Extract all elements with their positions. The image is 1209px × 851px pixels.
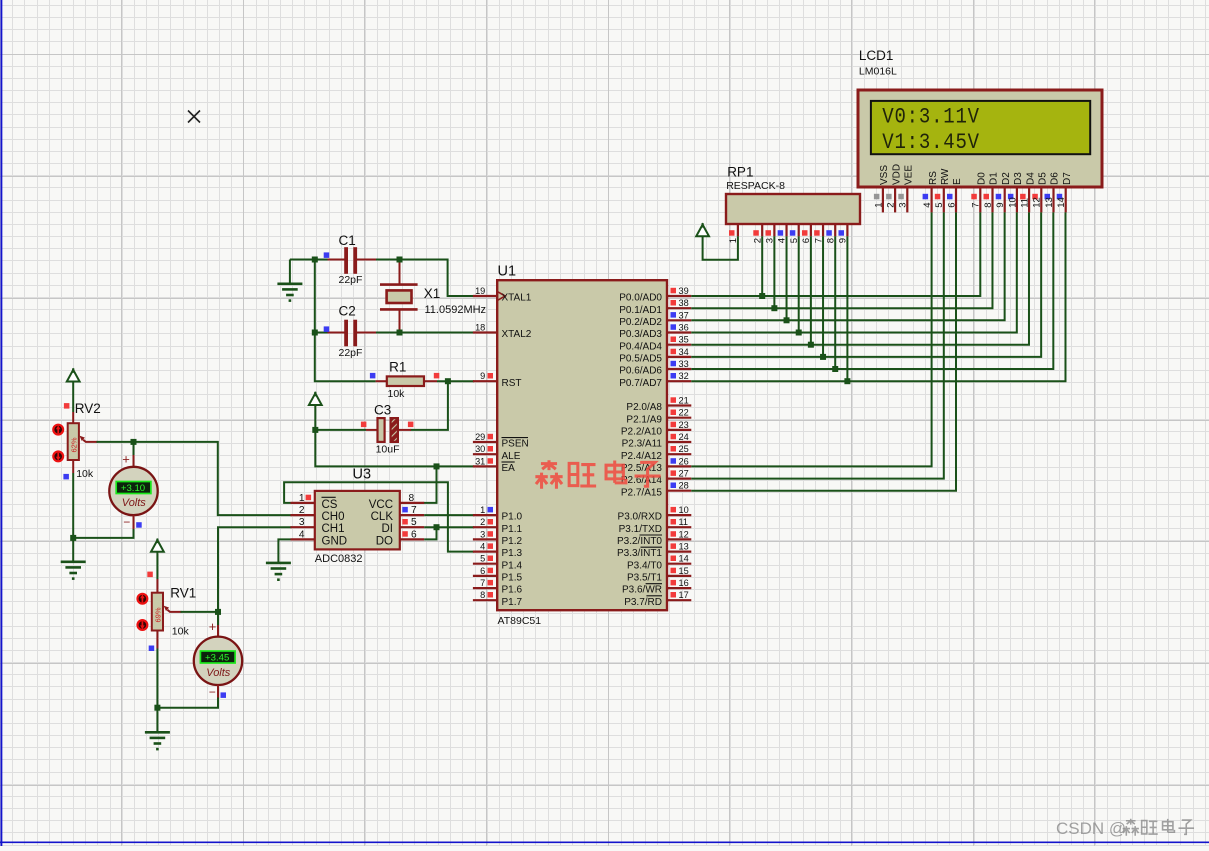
wire P0.0 net to LCD D0 xyxy=(691,212,980,296)
wire RP1 pin 3 drop xyxy=(773,236,775,308)
U1 pin 34 P0.5/AD5 xyxy=(667,356,691,358)
svg-text:37: 37 xyxy=(679,310,689,320)
wire CH1 vertical xyxy=(218,527,292,612)
svg-text:Volts: Volts xyxy=(206,667,231,679)
junction RP1-P0.7 xyxy=(844,378,850,384)
U1 pin 7 P1.6 xyxy=(473,587,497,589)
wire P0.4 net to LCD D4 xyxy=(691,212,1029,344)
svg-text:P2.3/A11: P2.3/A11 xyxy=(622,439,663,450)
U1 pin 12 P3.2/INT0 xyxy=(667,538,691,540)
svg-text:P0.3/AD3: P0.3/AD3 xyxy=(619,329,662,340)
svg-text:P0.6/AD6: P0.6/AD6 xyxy=(619,366,662,377)
svg-text:+3.45: +3.45 xyxy=(205,652,229,663)
svg-text:P2.7/A15: P2.7/A15 xyxy=(621,487,663,498)
junction R1-C3 xyxy=(445,378,451,384)
ground near C1 xyxy=(277,282,302,285)
RV2 down button xyxy=(53,452,63,462)
wire RP1 pin 5 drop xyxy=(798,236,800,332)
svg-text:P1.2: P1.2 xyxy=(502,536,523,547)
svg-text:4: 4 xyxy=(299,529,305,540)
svg-text:C2: C2 xyxy=(339,304,356,319)
RV1 wiper arrow xyxy=(167,610,181,612)
origin x marker xyxy=(188,111,200,123)
svg-text:VSS: VSS xyxy=(879,165,890,185)
RV1 up button xyxy=(138,594,148,604)
wire R1 to RST xyxy=(437,380,474,382)
RP1 pin 8 xyxy=(834,224,836,236)
svg-text:P0.2/AD2: P0.2/AD2 xyxy=(619,317,662,328)
svg-text:10uF: 10uF xyxy=(376,444,400,456)
svg-text:P3.0/RXD: P3.0/RXD xyxy=(618,512,662,523)
wire DO up to DI xyxy=(424,527,436,539)
svg-text:10: 10 xyxy=(679,505,689,515)
svg-text:P2.2/A10: P2.2/A10 xyxy=(621,427,663,438)
U1 pin 32 P0.7/AD7 xyxy=(667,380,691,382)
svg-text:3: 3 xyxy=(480,529,485,539)
svg-text:U3: U3 xyxy=(353,467,372,483)
svg-text:5: 5 xyxy=(411,517,417,528)
U1 pin 25 P2.4/A12 xyxy=(667,453,691,455)
svg-text:11.0592MHz: 11.0592MHz xyxy=(425,304,487,316)
wire P0.5 net to LCD D5 xyxy=(691,212,1041,357)
svg-text:D2: D2 xyxy=(1001,172,1012,185)
wire P0.7 net to LCD D7 xyxy=(691,212,1065,381)
ground under RV2 xyxy=(61,560,86,563)
U1 pin 31 EA xyxy=(473,465,497,467)
svg-text:6: 6 xyxy=(480,566,485,576)
svg-text:1: 1 xyxy=(299,493,305,504)
RV1 down button xyxy=(138,620,148,630)
svg-text:10k: 10k xyxy=(388,388,406,400)
U1 pin 39 P0.0/AD0 xyxy=(667,295,691,297)
wire RP1 pin 6 drop xyxy=(810,236,812,344)
svg-text:VDD: VDD xyxy=(891,164,902,185)
svg-text:2: 2 xyxy=(480,517,485,527)
svg-text:62%: 62% xyxy=(70,437,79,452)
U1 pin 4 P1.3 xyxy=(473,550,497,552)
svg-text:D4: D4 xyxy=(1025,172,1036,185)
wire DI to P1.1 xyxy=(424,526,474,528)
U3 pin 2 CH0 xyxy=(291,514,315,516)
svg-text:21: 21 xyxy=(679,396,689,406)
svg-text:14: 14 xyxy=(1056,197,1067,208)
svg-text:30: 30 xyxy=(475,444,485,454)
wire P0.3 net to LCD D3 xyxy=(691,212,1017,332)
svg-text:+: + xyxy=(122,452,130,467)
svg-text:39: 39 xyxy=(679,286,689,296)
svg-text:RV1: RV1 xyxy=(170,586,196,601)
junction EA-VCC xyxy=(434,463,440,469)
svg-text:P0.4/AD4: P0.4/AD4 xyxy=(619,341,662,352)
junction X1 top xyxy=(397,257,403,263)
svg-text:5: 5 xyxy=(934,203,945,208)
wire LCD control RS to P2.5 xyxy=(691,212,931,466)
sheet border blue xyxy=(0,0,2,846)
svg-text:6: 6 xyxy=(411,529,417,540)
U1 pin 24 P2.3/A11 xyxy=(667,441,691,443)
svg-text:C3: C3 xyxy=(374,403,391,418)
svg-text:V0:3.11V: V0:3.11V xyxy=(882,105,980,130)
U3 pin 1 CS xyxy=(291,502,315,504)
svg-text:P3.3/INT1: P3.3/INT1 xyxy=(617,548,662,559)
junction RP1-P0.1 xyxy=(771,305,777,311)
U1 pin 13 P3.3/INT1 xyxy=(667,550,691,552)
LCD1 LM016L display xyxy=(858,90,1102,187)
svg-text:EA: EA xyxy=(502,463,516,474)
U1 pin 11 P3.1/TXD xyxy=(667,526,691,528)
junction RP1-P0.4 xyxy=(808,342,814,348)
svg-text:P2.0/A8: P2.0/A8 xyxy=(626,402,662,413)
svg-text:10k: 10k xyxy=(172,626,190,638)
svg-text:24: 24 xyxy=(679,432,689,442)
svg-text:7: 7 xyxy=(480,578,485,588)
U1 pin 23 P2.2/A10 xyxy=(667,429,691,431)
svg-text:P2.4/A12: P2.4/A12 xyxy=(621,451,663,462)
svg-text:11: 11 xyxy=(679,517,689,527)
RP1 pin 9 xyxy=(846,224,848,236)
U1 pin 2 P1.1 xyxy=(473,526,497,528)
svg-text:31: 31 xyxy=(475,456,485,466)
RV2 wiper arrow xyxy=(83,440,97,442)
U1 pin 19 XTAL1 xyxy=(473,295,497,297)
svg-text:P1.6: P1.6 xyxy=(502,585,523,596)
svg-text:+: + xyxy=(209,619,217,634)
svg-text:12: 12 xyxy=(1032,197,1043,208)
svg-text:LM016L: LM016L xyxy=(859,66,897,78)
wire CLK to P1.0 xyxy=(424,514,474,516)
RP1 pin 5 xyxy=(798,224,800,236)
svg-text:X1: X1 xyxy=(424,286,441,301)
U3 pin 3 CH1 xyxy=(291,526,315,528)
svg-text:D6: D6 xyxy=(1050,172,1061,185)
power arrow for RP1 pin1 xyxy=(696,225,709,237)
U1 pin 37 P0.2/AD2 xyxy=(667,319,691,321)
svg-text:7: 7 xyxy=(411,505,417,516)
RP1 pin 3 xyxy=(773,224,775,236)
U1 pin 21 P2.0/A8 xyxy=(667,404,691,406)
svg-text:1: 1 xyxy=(480,505,485,515)
wire RP1 pin1 to power xyxy=(703,236,738,259)
U3 CS pin1 square xyxy=(306,495,312,501)
svg-text:P0.1/AD1: P0.1/AD1 xyxy=(619,305,662,316)
U1 pin 9 RST xyxy=(473,380,497,382)
wire P0.1 net to LCD D1 xyxy=(691,212,992,308)
svg-text:1: 1 xyxy=(873,203,884,208)
svg-text:−: − xyxy=(123,515,130,529)
svg-text:CLK: CLK xyxy=(371,511,394,523)
svg-text:11: 11 xyxy=(1020,198,1031,208)
svg-text:35: 35 xyxy=(679,335,689,345)
U1 pin 16 P3.6/WR xyxy=(667,587,691,589)
junction RV1 ground xyxy=(154,705,160,711)
svg-text:19: 19 xyxy=(475,286,485,296)
U1 pin 6 P1.5 xyxy=(473,575,497,577)
RP1 pin 2 xyxy=(761,224,763,236)
U1 pin 14 P3.4/T0 xyxy=(667,563,691,565)
svg-text:DI: DI xyxy=(382,523,394,535)
U1 pin 38 P0.1/AD1 xyxy=(667,307,691,309)
svg-text:U1: U1 xyxy=(498,264,517,280)
junction C3 arrow xyxy=(312,427,318,433)
svg-text:P3.4/T0: P3.4/T0 xyxy=(627,560,662,571)
svg-text:P0.7/AD7: P0.7/AD7 xyxy=(619,378,662,389)
svg-text:P1.7: P1.7 xyxy=(502,597,523,608)
svg-text:34: 34 xyxy=(679,347,689,357)
U3 pin 7 CLK xyxy=(400,514,424,516)
junction RP1-P0.3 xyxy=(796,330,802,336)
svg-text:17: 17 xyxy=(679,590,689,600)
LCD text line1 xyxy=(882,105,980,130)
wire CS to P1.3 xyxy=(284,482,474,551)
red watermark text xyxy=(535,460,562,489)
IC U3 ADC0832 xyxy=(315,491,400,550)
RV2 up button xyxy=(53,425,63,435)
svg-text:RW: RW xyxy=(940,168,951,185)
svg-text:9: 9 xyxy=(995,203,1006,208)
wire RP1 pin 7 drop xyxy=(822,236,824,357)
svg-text:P2.1/A9: P2.1/A9 xyxy=(626,414,662,425)
svg-text:29: 29 xyxy=(475,432,485,442)
wire C1 row to ground leg xyxy=(290,259,328,261)
capacitor C1 xyxy=(328,259,346,261)
svg-text:RST: RST xyxy=(502,378,522,389)
IC U1 AT89C51 xyxy=(497,280,667,610)
svg-text:ALE: ALE xyxy=(502,451,521,462)
svg-text:LCD1: LCD1 xyxy=(859,48,894,63)
svg-text:P3.6/WR: P3.6/WR xyxy=(622,585,662,596)
svg-text:5: 5 xyxy=(480,554,485,564)
svg-text:P3.1/TXD: P3.1/TXD xyxy=(619,524,662,535)
wire C2 row xyxy=(315,332,328,334)
U3 pin 8 VCC xyxy=(400,502,424,504)
capacitor C3 10uF xyxy=(366,429,379,431)
svg-text:P3.7/RD: P3.7/RD xyxy=(624,597,662,608)
RP1 pin 1 xyxy=(737,224,739,236)
svg-text:22pF: 22pF xyxy=(339,347,363,359)
svg-text:3: 3 xyxy=(898,203,909,208)
svg-text:P1.4: P1.4 xyxy=(502,560,523,571)
svg-text:9: 9 xyxy=(480,371,485,381)
potentiometer RV1 xyxy=(156,579,158,593)
svg-text:AT89C51: AT89C51 xyxy=(498,615,542,627)
svg-text:28: 28 xyxy=(679,481,689,491)
svg-text:12: 12 xyxy=(679,529,689,539)
junction RP1-P0.0 xyxy=(759,293,765,299)
svg-text:22pF: 22pF xyxy=(339,274,363,286)
svg-text:4: 4 xyxy=(922,203,933,208)
svg-text:XTAL2: XTAL2 xyxy=(502,329,532,340)
resistor pack RP1 RESPACK-8 xyxy=(726,194,860,224)
capacitor C2 xyxy=(328,332,346,334)
wire VCC U3 to EA xyxy=(424,466,437,503)
wire left vertical C1-C2-R1 xyxy=(315,260,376,382)
wire C3 row left xyxy=(315,429,366,431)
wire RP1 pin 8 drop xyxy=(834,236,836,369)
wire RV1 bottom xyxy=(156,649,158,733)
wire C1 right to XTAL1 xyxy=(356,260,474,297)
svg-text:18: 18 xyxy=(475,323,485,333)
RP1 pin 7 xyxy=(822,224,824,236)
junction wiper-VM2 xyxy=(215,609,221,615)
wire P0.6 net to LCD D6 xyxy=(691,212,1053,369)
svg-text:VCC: VCC xyxy=(369,499,393,511)
U1 pin 27 P2.6/A14 xyxy=(667,478,691,480)
svg-text:ADC0832: ADC0832 xyxy=(315,553,363,565)
ground under U3 xyxy=(266,562,291,565)
wire RV2 wiper to CH0 xyxy=(97,442,292,515)
U1 pin 26 P2.5/A13 xyxy=(667,465,691,467)
svg-text:RV2: RV2 xyxy=(75,401,101,416)
svg-text:P0.0/AD0: P0.0/AD0 xyxy=(619,293,662,304)
svg-text:DO: DO xyxy=(376,535,393,547)
svg-text:P1.3: P1.3 xyxy=(502,548,523,559)
wire EA row from arrow junction xyxy=(315,430,474,467)
U1 pin 18 XTAL2 xyxy=(473,331,497,333)
svg-text:10: 10 xyxy=(1007,197,1018,208)
ground under RV1 xyxy=(145,731,170,734)
svg-text:P3.2/INT0: P3.2/INT0 xyxy=(617,536,662,547)
svg-text:RP1: RP1 xyxy=(727,165,753,180)
wire RV1 wiper xyxy=(181,611,219,613)
junction C1 row xyxy=(312,257,318,263)
svg-text:CS: CS xyxy=(322,499,338,511)
junction X1 bottom xyxy=(397,330,403,336)
svg-text:P1.5: P1.5 xyxy=(502,573,523,584)
svg-text:D3: D3 xyxy=(1013,172,1024,185)
U1 pin 36 P0.3/AD3 xyxy=(667,331,691,333)
power arrow above RV2 xyxy=(67,370,80,382)
svg-text:2: 2 xyxy=(299,505,305,516)
svg-text:25: 25 xyxy=(679,444,689,454)
svg-text:+3.10: +3.10 xyxy=(121,483,145,494)
svg-text:4: 4 xyxy=(480,542,485,552)
svg-text:2: 2 xyxy=(886,203,897,208)
svg-text:33: 33 xyxy=(679,359,689,369)
power arrow VCC near C3 xyxy=(309,393,322,405)
U1 pin 8 P1.7 xyxy=(473,599,497,601)
potentiometer RV2 xyxy=(72,412,74,423)
svg-text:3: 3 xyxy=(299,517,305,528)
svg-text:Volts: Volts xyxy=(122,497,147,509)
junction RP1-P0.6 xyxy=(832,366,838,372)
svg-text:CH0: CH0 xyxy=(322,511,345,523)
U3 pin 5 DI xyxy=(400,526,424,528)
RP1 pin 6 xyxy=(810,224,812,236)
svg-text:V1:3.45V: V1:3.45V xyxy=(882,131,980,156)
U3 pin 6 DO xyxy=(400,538,424,540)
svg-text:13: 13 xyxy=(1044,197,1055,208)
svg-text:6: 6 xyxy=(946,203,957,208)
svg-text:CH1: CH1 xyxy=(322,523,345,535)
svg-text:8: 8 xyxy=(480,590,485,600)
svg-text:26: 26 xyxy=(679,456,689,466)
svg-text:RESPACK-8: RESPACK-8 xyxy=(726,180,785,192)
U1 pin 35 P0.4/AD4 xyxy=(667,344,691,346)
RP1 pin 4 xyxy=(785,224,787,236)
U1 pin 1 P1.0 xyxy=(473,514,497,516)
svg-text:69%: 69% xyxy=(154,607,163,622)
voltmeter VM2 +3.45 xyxy=(217,612,219,625)
svg-text:22: 22 xyxy=(679,408,689,418)
svg-text:XTAL1: XTAL1 xyxy=(502,293,532,304)
junction RV2 ground xyxy=(70,535,76,541)
LCD screen xyxy=(871,101,1090,154)
svg-text:CSDN @: CSDN @ xyxy=(1056,819,1126,838)
svg-text:38: 38 xyxy=(679,298,689,308)
U1 pin 30 ALE xyxy=(473,453,497,455)
svg-text:RS: RS xyxy=(928,171,939,185)
svg-text:8: 8 xyxy=(409,493,415,504)
U1 pin 3 P1.2 xyxy=(473,538,497,540)
junction RP1-P0.2 xyxy=(784,317,790,323)
U1 pin 29 PSEN xyxy=(473,441,497,443)
resistor R1 xyxy=(376,380,387,382)
junction C2 row xyxy=(312,330,318,336)
wire LCD control RW to P2.6 xyxy=(691,212,944,478)
svg-text:E: E xyxy=(952,178,963,185)
U1 pin 28 P2.7/A15 xyxy=(667,490,691,492)
junction wiper-VM1 xyxy=(131,439,137,445)
svg-text:15: 15 xyxy=(679,566,689,576)
svg-text:R1: R1 xyxy=(389,360,406,375)
U1 pin 15 P3.5/T1 xyxy=(667,575,691,577)
svg-text:23: 23 xyxy=(679,420,689,430)
svg-text:D7: D7 xyxy=(1062,172,1073,185)
wire P0.2 net to LCD D2 xyxy=(691,212,1004,320)
svg-text:P1.0: P1.0 xyxy=(502,512,523,523)
U1 XTAL1 clock mark xyxy=(498,292,505,300)
wire RP1 pin 2 drop xyxy=(761,236,763,296)
wire RP1 pin 9 drop xyxy=(846,236,848,381)
svg-text:14: 14 xyxy=(679,554,689,564)
svg-text:D5: D5 xyxy=(1038,172,1049,185)
U3 pin 4 GND xyxy=(291,538,315,540)
U1 pin 10 P3.0/RXD xyxy=(667,514,691,516)
svg-text:8: 8 xyxy=(983,203,994,208)
svg-text:P3.5/T1: P3.5/T1 xyxy=(627,573,662,584)
U1 pin 22 P2.1/A9 xyxy=(667,417,691,419)
svg-text:27: 27 xyxy=(679,469,689,479)
junction RP1-P0.5 xyxy=(820,354,826,360)
wire RV2 bottom xyxy=(72,473,74,562)
svg-text:P2.5/A13: P2.5/A13 xyxy=(621,463,663,474)
svg-text:32: 32 xyxy=(679,371,689,381)
svg-text:D1: D1 xyxy=(989,172,1000,185)
svg-text:C1: C1 xyxy=(339,233,356,248)
wire C3 right vertical xyxy=(410,381,448,430)
svg-text:D0: D0 xyxy=(977,172,988,185)
svg-text:P0.5/AD5: P0.5/AD5 xyxy=(619,354,662,365)
wire RP1 pin 4 drop xyxy=(786,236,788,320)
crystal X1 xyxy=(399,260,401,285)
svg-text:−: − xyxy=(209,685,216,699)
svg-text:P1.1: P1.1 xyxy=(502,524,523,535)
svg-text:36: 36 xyxy=(679,323,689,333)
svg-text:10k: 10k xyxy=(76,468,94,480)
U1 pin 33 P0.6/AD6 xyxy=(667,368,691,370)
svg-text:16: 16 xyxy=(679,578,689,588)
junction DI-DO xyxy=(434,524,440,530)
U1 pin 5 P1.4 xyxy=(473,563,497,565)
svg-text:VEE: VEE xyxy=(904,165,915,185)
svg-text:7: 7 xyxy=(971,203,982,208)
voltmeter VM1 +3.10 xyxy=(133,442,135,455)
svg-text:GND: GND xyxy=(322,535,348,547)
wire U3 GND xyxy=(278,539,290,562)
U1 pin 17 P3.7/RD xyxy=(667,599,691,601)
wire LCD control E to P2.7 xyxy=(691,212,956,490)
power arrow above RV1 xyxy=(151,540,164,552)
